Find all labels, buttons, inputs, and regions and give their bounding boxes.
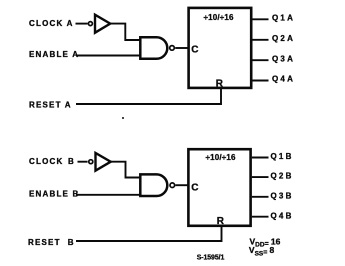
svg-text:R: R — [217, 216, 225, 227]
svg-text:Q4A: Q4A — [272, 75, 295, 84]
svg-text:CLOCK A: CLOCK A — [29, 19, 74, 28]
wire Q2A stub — [252, 39, 269, 41]
wire CLOCK A lead — [76, 23, 88, 25]
wire Q4A stub — [252, 80, 269, 82]
svg-text:CLOCK: CLOCK — [29, 157, 63, 166]
svg-text:Q4B: Q4B — [271, 211, 294, 220]
wire RESET B to counter R input — [76, 226, 222, 241]
svg-text:RESET: RESET — [28, 238, 61, 247]
svg-text:Q2B: Q2B — [271, 172, 294, 181]
NAND G1A output bubble — [170, 46, 175, 51]
wire buffer B output to NAND top input — [110, 162, 139, 178]
NAND G1B output bubble — [170, 183, 175, 188]
wire Q4B stub — [252, 216, 269, 218]
wire NAND A output to counter C input — [175, 47, 189, 49]
wire buffer A output to NAND top input — [110, 24, 140, 40]
inverter input bubble B — [89, 160, 93, 164]
wire NAND B output to counter C input — [175, 184, 189, 186]
svg-text:R: R — [216, 79, 224, 90]
inverter input bubble A — [88, 22, 92, 26]
svg-text:Q2A: Q2A — [272, 34, 295, 43]
wire Q3A stub — [252, 59, 269, 61]
svg-text:ENABLE A: ENABLE A — [29, 50, 79, 59]
svg-text:B: B — [68, 238, 75, 247]
svg-text:B: B — [68, 157, 75, 166]
wire CLOCK B lead — [78, 161, 88, 163]
svg-text:÷10/÷16: ÷10/÷16 — [206, 153, 237, 162]
svg-text:C: C — [191, 44, 198, 55]
svg-text:Q3B: Q3B — [271, 191, 294, 200]
svg-text:Q1A: Q1A — [272, 13, 295, 22]
wire RESET A to counter R input — [76, 89, 221, 105]
wire ENABLE B to NAND bottom input — [76, 194, 140, 196]
wire Q2B stub — [252, 176, 269, 178]
svg-text:C: C — [191, 183, 198, 194]
wire Q1A stub — [252, 18, 269, 20]
svg-text:ENABLE B: ENABLE B — [29, 190, 80, 199]
wire Q3B stub — [252, 196, 269, 198]
NAND gate G1A — [140, 37, 167, 59]
stray speck — [122, 117, 124, 119]
NAND gate G1B — [140, 174, 167, 196]
wire ENABLE A to NAND bottom input — [76, 55, 140, 57]
counter U2A (+10/+16 block) — [189, 8, 252, 88]
svg-text:Q3A: Q3A — [272, 54, 295, 63]
svg-text:÷10/÷16: ÷10/÷16 — [204, 13, 235, 22]
svg-text:S-1595/1: S-1595/1 — [197, 255, 225, 262]
wire Q1B stub — [252, 157, 269, 159]
buffer U1A (triangle) — [95, 15, 110, 33]
svg-text:RESET A: RESET A — [29, 100, 72, 109]
svg-text:Q1B: Q1B — [271, 152, 294, 161]
buffer U1B (triangle) — [96, 153, 111, 171]
counter U2B (+10/+16 block) — [188, 149, 250, 226]
